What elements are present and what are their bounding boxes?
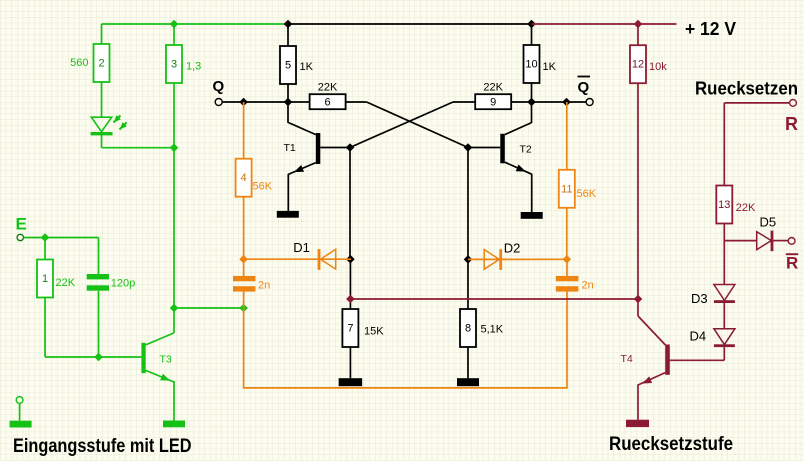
wire R10 top lead <box>531 24 533 45</box>
wire D2 cathode run <box>468 258 567 260</box>
wire LED cathode down <box>101 135 103 148</box>
label D1 <box>293 240 310 255</box>
svg-text:8: 8 <box>465 323 471 335</box>
wire T2 base to D2 <box>467 148 469 260</box>
resistor R5 1K <box>280 46 296 84</box>
wire reset horizontal <box>350 298 638 300</box>
value 56K label R4 <box>253 180 273 192</box>
pin Q <box>215 99 222 106</box>
wire +12V rail black segment <box>288 23 532 25</box>
wire T3 collector to C2 node <box>174 307 244 309</box>
wire +12V rail maroon segment <box>532 23 677 25</box>
wire R5 bottom lead <box>287 84 289 102</box>
svg-text:1K: 1K <box>300 61 314 73</box>
ground T3 <box>163 421 185 428</box>
resistor R1 22K <box>37 260 53 298</box>
value 56K label R11 <box>577 188 597 200</box>
svg-text:D4: D4 <box>690 329 707 344</box>
wire to D5 <box>724 240 756 242</box>
node R4/D1 junction <box>239 255 248 264</box>
wire D1 anode run <box>244 258 351 260</box>
svg-text:D1: D1 <box>293 240 310 255</box>
node Qbar label <box>578 77 591 97</box>
svg-text:56K: 56K <box>577 188 597 200</box>
wire T1 collector up <box>287 102 289 123</box>
svg-text:T2: T2 <box>520 143 532 155</box>
diode D1 <box>318 249 336 270</box>
wire T3 collector up <box>173 308 175 333</box>
wire R6 right lead <box>346 101 367 103</box>
node R7/reset junction <box>346 295 355 304</box>
svg-text:Q: Q <box>213 78 225 95</box>
value 2n label C2 <box>258 280 270 292</box>
diode D4 <box>714 329 735 347</box>
svg-text:Eingangsstufe mit LED: Eingangsstufe mit LED <box>13 436 192 457</box>
wire C2 bottom to rail <box>244 291 567 388</box>
title Eingangsstufe mit LED <box>13 436 192 457</box>
ground unused pin <box>10 421 32 428</box>
resistor R8 5,1K <box>460 309 476 347</box>
wire C3 top lead <box>566 259 568 276</box>
label D4 <box>690 329 707 344</box>
wire R4 top lead <box>243 102 245 159</box>
wire LED to R3 branch <box>102 147 175 149</box>
wire T1 emitter down <box>287 174 289 211</box>
node R11 top junction <box>562 98 571 107</box>
value 22K label R1 <box>56 277 76 289</box>
value 1K label R10 <box>543 61 557 73</box>
svg-text:12: 12 <box>632 59 644 71</box>
wire D2 node to R8 <box>467 259 469 309</box>
wire C1 top lead <box>98 238 100 275</box>
wire T1 base lead <box>320 147 350 149</box>
wire Q to junction <box>222 101 243 103</box>
capacitor C3 2n <box>556 276 579 292</box>
node Q label <box>213 78 225 95</box>
pin Qbar <box>586 99 593 106</box>
node T2 base junction <box>464 143 473 152</box>
transistor T2 <box>500 123 532 175</box>
svg-text:3: 3 <box>171 59 177 71</box>
value 5,1K label R8 <box>481 323 504 335</box>
node top-left junction <box>170 20 179 29</box>
ground R7 <box>339 378 363 386</box>
node T3 collector junction <box>170 304 179 313</box>
node Rbar label <box>786 253 798 272</box>
value 10k label R12 <box>649 61 667 73</box>
pin R <box>790 100 797 107</box>
node Q/R5 junction <box>284 98 293 107</box>
svg-text:56K: 56K <box>253 180 273 192</box>
svg-text:E: E <box>16 215 27 234</box>
wire unused pin <box>19 403 21 420</box>
wire D4 to T4 base <box>723 347 725 360</box>
node R5 top junction <box>284 20 293 29</box>
svg-text:2: 2 <box>98 58 104 70</box>
svg-text:1: 1 <box>42 273 48 285</box>
wire T2 base lead <box>468 147 500 149</box>
svg-text:+ 12 V: + 12 V <box>685 19 736 39</box>
diode D2 <box>484 249 502 270</box>
wire R3 bottom long vertical <box>173 83 175 308</box>
value 22K label R9 <box>483 81 503 93</box>
resistor R12 10k <box>630 45 646 83</box>
resistor R11 56K <box>559 170 575 208</box>
wire +12V rail green segment <box>102 23 289 25</box>
wire R11 bottom lead <box>566 208 568 260</box>
wire T3 emitter down <box>173 381 175 421</box>
wire R12 top lead <box>637 24 639 45</box>
wire D1 node to R7 <box>349 259 351 309</box>
svg-text:9: 9 <box>490 97 496 109</box>
svg-text:10: 10 <box>525 59 537 71</box>
svg-text:560: 560 <box>70 57 88 69</box>
svg-text:1,3: 1,3 <box>186 61 201 73</box>
node C1/base junction <box>94 353 103 362</box>
node LED/R3 junction <box>170 143 179 152</box>
transistor T3 <box>141 333 174 382</box>
svg-text:5,1K: 5,1K <box>481 323 504 335</box>
label +12V <box>685 19 736 39</box>
resistor R7 15K <box>342 309 358 347</box>
wire to Qbar pin <box>567 101 587 103</box>
svg-text:22K: 22K <box>736 202 756 214</box>
svg-text:Ruecksetzstufe: Ruecksetzstufe <box>609 434 733 455</box>
wire R input <box>724 102 789 104</box>
label D5 <box>760 215 777 230</box>
transistor T4 <box>621 299 670 385</box>
wire R2 to LED <box>101 82 103 118</box>
value 22K label R6 <box>318 81 338 93</box>
svg-text:15K: 15K <box>364 325 384 337</box>
diode D5 <box>757 231 774 252</box>
node green/orange junction <box>239 304 248 313</box>
wire D3 to D4 <box>723 303 725 329</box>
svg-text:4: 4 <box>241 172 247 184</box>
svg-text:D2: D2 <box>504 241 521 256</box>
value 22K label R13 <box>736 202 756 214</box>
wire Q node segment <box>244 101 288 103</box>
node R12 top junction <box>634 20 643 29</box>
wire R13 bottom lead <box>723 224 725 241</box>
value 2n label C3 <box>582 279 594 291</box>
wire R5 top lead <box>287 24 289 46</box>
wire R5 to R6 <box>288 101 310 103</box>
pin E <box>17 234 23 240</box>
svg-text:11: 11 <box>561 183 572 195</box>
wire T1 base to D1 <box>349 148 351 260</box>
svg-text:2n: 2n <box>582 279 594 291</box>
capacitor C1 120p <box>87 274 109 291</box>
ground R8 <box>457 378 479 386</box>
node D1 junction <box>346 255 355 264</box>
pin Rbar <box>788 238 795 245</box>
wire resistor R3 top lead <box>173 24 175 45</box>
wire cross-couple T1 base to R9 <box>350 102 453 148</box>
ground T2 <box>521 212 543 219</box>
value 1,3 label <box>186 61 201 73</box>
wire R13 to D3 <box>723 241 725 285</box>
resistor R10 1K <box>524 45 540 83</box>
svg-text:7: 7 <box>347 323 353 335</box>
svg-text:6: 6 <box>325 97 331 109</box>
svg-text:13: 13 <box>718 199 730 211</box>
svg-text:T3: T3 <box>160 354 172 366</box>
svg-text:D5: D5 <box>760 215 777 230</box>
title Ruecksetzstufe <box>609 434 733 455</box>
svg-text:5: 5 <box>285 60 291 72</box>
diode D3 <box>714 285 735 304</box>
resistor R2 560 <box>94 44 110 82</box>
node R10 top junction <box>527 20 536 29</box>
node Q/R4 junction <box>239 98 248 107</box>
wire to R9 left <box>453 101 476 103</box>
resistor R3 1,3 <box>166 45 182 83</box>
svg-text:2n: 2n <box>258 280 270 292</box>
wire R to R13 <box>723 103 725 186</box>
capacitor C2 2n <box>233 276 255 292</box>
resistor R6 22K <box>310 94 346 109</box>
wire E input <box>24 237 99 239</box>
wire R1 top lead <box>44 238 46 260</box>
pin unused input <box>16 397 23 404</box>
transistor T1 <box>284 122 321 174</box>
label D2 <box>504 241 521 256</box>
wire resistor R2 top lead <box>101 24 103 44</box>
wire T4 emitter down <box>637 384 639 419</box>
resistor R13 22K <box>716 186 732 224</box>
wire cross-couple R6 to T2 base <box>367 102 468 148</box>
node D2 junction <box>464 255 473 264</box>
node T4 collector junction <box>634 295 643 304</box>
node R11/D2 junction <box>563 255 572 264</box>
node T1 base junction <box>346 143 355 152</box>
svg-text:120p: 120p <box>111 278 135 290</box>
wire Qbar segment <box>532 101 567 103</box>
svg-text:R: R <box>786 253 798 272</box>
node E label <box>16 215 27 234</box>
svg-text:22K: 22K <box>483 81 503 93</box>
label Ruecksetzen <box>695 79 798 99</box>
value 15K label R7 <box>364 325 384 337</box>
svg-text:Q: Q <box>578 79 590 96</box>
wire T3 base horizontal <box>45 356 141 358</box>
wire T4 base lead <box>670 359 725 361</box>
resistor R9 22K <box>475 94 511 109</box>
label D3 <box>691 291 708 306</box>
wire R12 bottom long <box>637 83 639 299</box>
wire T2 collector up <box>531 102 533 123</box>
svg-text:R: R <box>785 114 798 134</box>
wire C2 top lead <box>243 259 245 276</box>
value 560 label <box>70 57 88 69</box>
svg-text:22K: 22K <box>318 81 338 93</box>
wire R11 top lead <box>566 102 568 170</box>
wire T2 emitter down <box>531 174 533 213</box>
svg-text:22K: 22K <box>56 277 76 289</box>
value 120p label <box>111 278 135 290</box>
svg-text:1K: 1K <box>543 61 557 73</box>
svg-text:D3: D3 <box>691 291 708 306</box>
node Qbar/R10 junction <box>527 98 536 107</box>
node R label <box>785 114 798 134</box>
ground T1 <box>277 211 299 218</box>
LED D6 <box>91 115 127 135</box>
svg-text:T4: T4 <box>621 353 633 365</box>
ground T4 <box>626 420 649 427</box>
wire C1 bottom lead <box>98 291 100 357</box>
svg-text:T1: T1 <box>284 142 296 154</box>
wire R7 bottom lead <box>349 347 351 378</box>
svg-text:Ruecksetzen: Ruecksetzen <box>695 79 798 99</box>
svg-text:10k: 10k <box>649 61 667 73</box>
wire R4 bottom lead <box>243 197 245 260</box>
wire R9 right lead <box>511 101 531 103</box>
node E junction <box>41 233 50 242</box>
value 1K label R5 <box>300 61 314 73</box>
resistor R4 56K <box>236 159 252 197</box>
wire R1 bottom lead <box>44 298 46 358</box>
wire D5 to pin <box>773 240 788 242</box>
wire R8 bottom lead <box>467 347 469 378</box>
wire R10 bottom lead <box>531 83 533 102</box>
